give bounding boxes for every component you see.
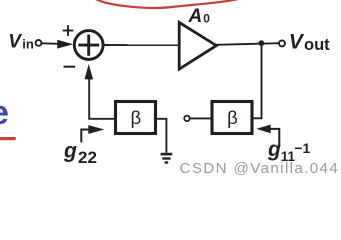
wire left beta to ground (157, 119, 167, 153)
op-amp A0 triangle (179, 22, 216, 69)
wire amp to output (216, 43, 281, 45)
svg-text:0: 0 (203, 11, 210, 25)
wire left beta to summer (feedback) (89, 77, 115, 119)
svg-text:V: V (8, 32, 22, 53)
wire terminal to right beta box (190, 117, 211, 119)
svg-text:β: β (227, 107, 238, 128)
red underline (cut off at left edge) (0, 137, 14, 140)
svg-text:A: A (188, 6, 203, 27)
feedback arrowhead into summer (85, 64, 94, 80)
feedback block beta (left) (116, 102, 156, 134)
input terminal (open circle) (36, 40, 42, 46)
svg-text:−1: −1 (294, 140, 310, 156)
svg-text:CSDN @Vanilla.044: CSDN @Vanilla.044 (180, 160, 340, 177)
svg-text:g: g (267, 138, 281, 161)
feedback block beta (right) (212, 102, 252, 134)
svg-text:out: out (304, 36, 330, 54)
input arrowhead (57, 40, 73, 49)
g22 pointer arrow (81, 130, 89, 143)
wire Vin to summer (42, 42, 60, 45)
ground (161, 153, 173, 156)
minus sign annotation (64, 66, 76, 68)
red annotation curve (95, 0, 247, 8)
node: output junction dot (259, 40, 265, 46)
wire summer to amp (103, 44, 180, 46)
g11 pointer arrow (268, 129, 279, 147)
svg-text:V: V (289, 31, 305, 54)
svg-text:22: 22 (78, 148, 97, 167)
plus sign annotation (63, 30, 74, 32)
summing junction (74, 31, 103, 60)
wire output down to right beta box (254, 43, 262, 118)
svg-text:e: e (0, 94, 9, 132)
svg-text:in: in (22, 37, 34, 52)
right beta input terminal (open circle) (184, 116, 189, 121)
output terminal (open circle) (279, 40, 285, 46)
svg-text:β: β (130, 107, 141, 128)
svg-text:g: g (63, 140, 77, 163)
